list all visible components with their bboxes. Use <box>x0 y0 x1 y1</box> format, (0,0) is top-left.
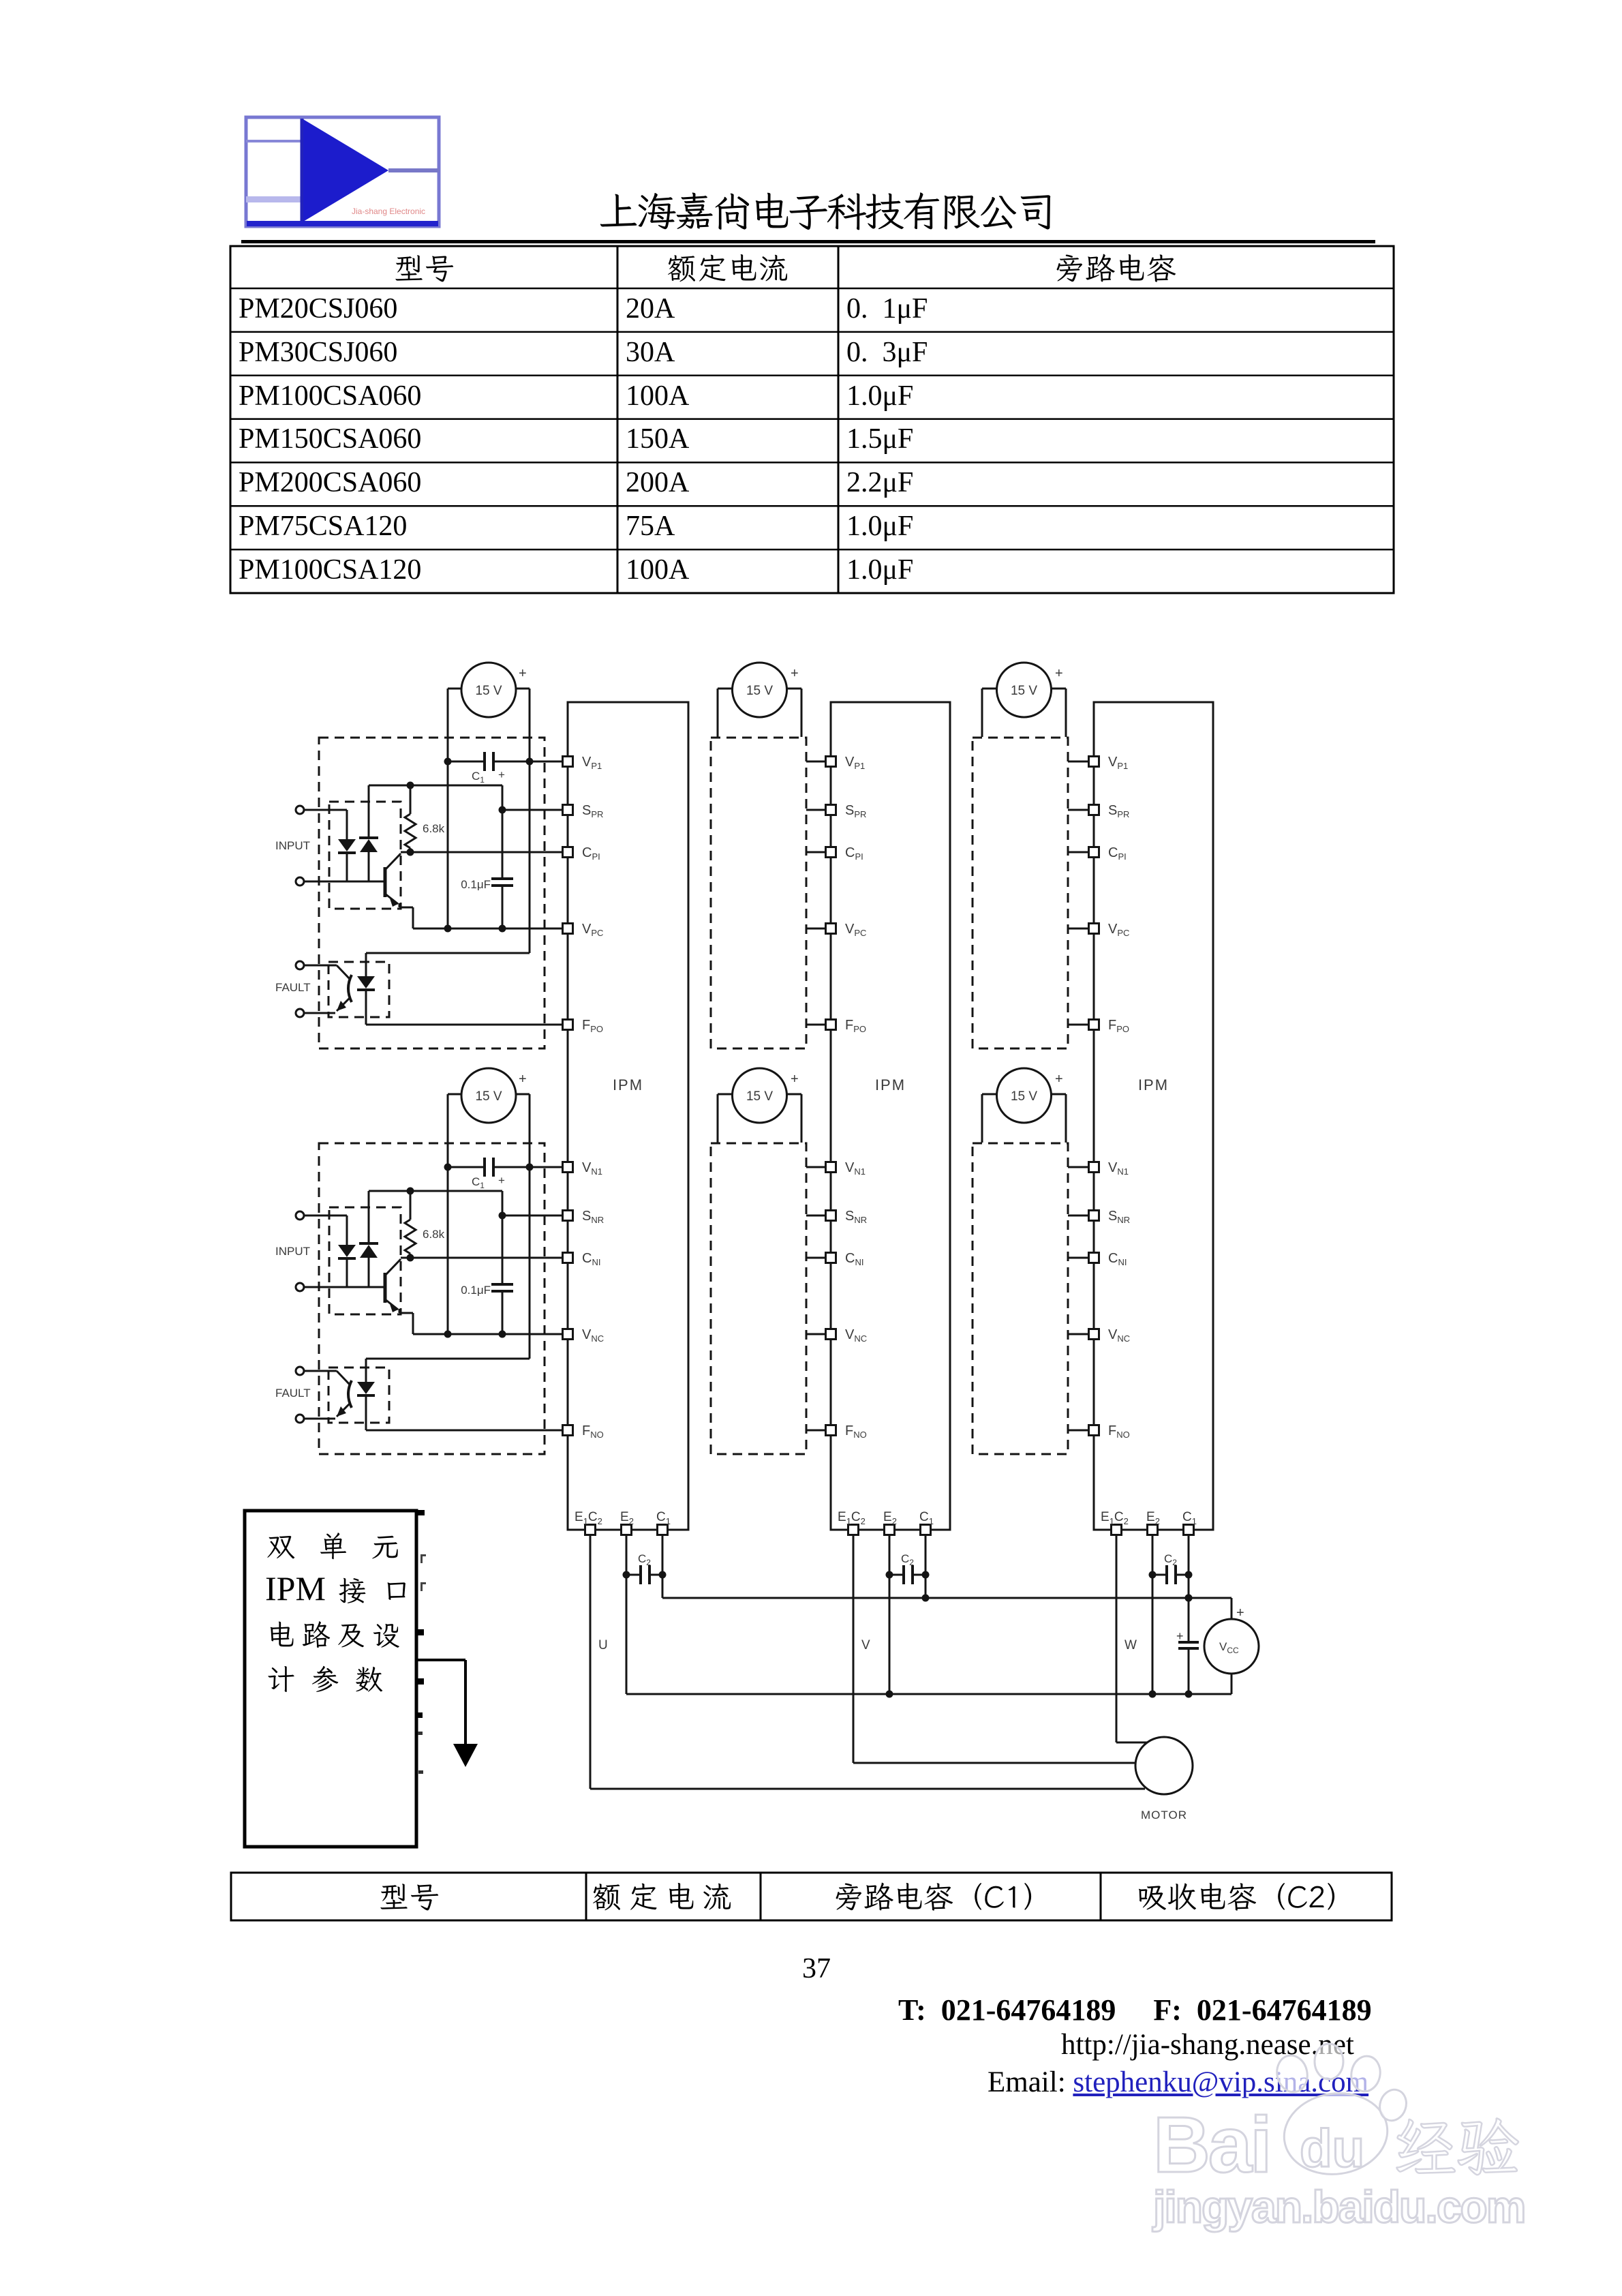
svg-text:FNO: FNO <box>845 1423 867 1440</box>
bottom table header row <box>231 1873 1392 1920</box>
wire D2 anode <box>368 1258 370 1287</box>
svg-text:U: U <box>598 1638 608 1652</box>
wire 15V right leg <box>801 1094 803 1143</box>
pin E2 of U3 <box>1146 1510 1160 1535</box>
svg-text:SNR: SNR <box>582 1209 604 1225</box>
svg-text:CNI: CNI <box>1108 1251 1127 1267</box>
svg-text:VP1: VP1 <box>845 755 865 771</box>
label 0.1uF <box>461 878 491 891</box>
svg-text:E2: E2 <box>1146 1510 1160 1526</box>
capacitor CF (bus filter) <box>1178 1595 1199 1698</box>
svg-text:VNC: VNC <box>1108 1327 1130 1344</box>
label C2 (U2) <box>901 1552 914 1567</box>
wire VP1 net <box>530 761 563 763</box>
svg-text:IPM: IPM <box>1138 1076 1169 1093</box>
label C1 <box>472 770 485 785</box>
junction resistor bottom <box>407 849 414 856</box>
svg-text:FPO: FPO <box>582 1018 603 1034</box>
plus polarity mark VCC <box>1236 1605 1244 1620</box>
svg-text:+: + <box>498 768 505 781</box>
wire D2 anode <box>368 852 370 881</box>
svg-text:VPC: VPC <box>582 922 603 938</box>
fault terminal P top <box>296 961 304 969</box>
svg-text:Jia-shang Electronic: Jia-shang Electronic <box>352 207 425 216</box>
wire 15V left leg <box>447 689 449 928</box>
pin FPO of U2 <box>826 1018 867 1034</box>
opto-coupler UP2 dashed box (fault) <box>328 962 389 1017</box>
wire input top <box>304 810 347 839</box>
pin VN1 of U1 <box>563 1160 602 1177</box>
wire emitter to VPC <box>399 903 413 928</box>
junction C1 left <box>444 1164 452 1171</box>
svg-text:CPI: CPI <box>845 845 863 862</box>
wire D2 cathode up <box>368 1191 370 1243</box>
voltage source 15V <box>733 663 787 717</box>
svg-text:VN1: VN1 <box>582 1160 602 1177</box>
capacitor C1 (N) <box>448 1158 530 1177</box>
interface dashed box (col 3) <box>973 738 1068 1048</box>
opto-coupler UN1 inner dashed box <box>329 1207 401 1314</box>
junction 0.1uF bottom <box>499 1331 506 1338</box>
wire CNI stub <box>1068 1257 1089 1259</box>
LED DN3 (fault) <box>357 1382 375 1395</box>
wire VNC stub <box>1068 1333 1089 1335</box>
svg-text:IPM: IPM <box>613 1076 643 1093</box>
LED DN1 <box>338 1245 356 1258</box>
svg-text:SNR: SNR <box>1108 1209 1130 1225</box>
svg-text:+: + <box>1055 666 1063 681</box>
pin CPI of U1 <box>563 845 600 862</box>
fault terminal N top <box>296 1367 304 1375</box>
wire C1 column U3 <box>1188 1535 1190 1598</box>
pin VN1 of U2 <box>826 1160 866 1177</box>
svg-text:SPR: SPR <box>1108 803 1129 819</box>
wire SPR net <box>502 809 563 811</box>
junction resistor bottom <box>407 1254 414 1262</box>
transistor QP1 (opto output) <box>385 854 401 907</box>
wire CPI stub <box>1068 851 1089 854</box>
svg-text:15 V: 15 V <box>475 1089 502 1104</box>
svg-text:INPUT: INPUT <box>275 839 310 852</box>
wire VPC stub <box>806 928 826 930</box>
svg-text:15 V: 15 V <box>1011 1089 1037 1104</box>
svg-text:+: + <box>519 666 527 681</box>
wire 15V loop top <box>982 1093 1066 1096</box>
pin FPO of U1 <box>563 1018 604 1034</box>
pin VNC of U3 <box>1089 1327 1131 1344</box>
opto-coupler UP1 inner dashed box <box>329 802 401 909</box>
input terminal P top <box>296 806 304 814</box>
plus polarity mark <box>1055 1072 1063 1087</box>
wire 15V left leg <box>717 1094 719 1143</box>
svg-text:VN1: VN1 <box>1108 1160 1129 1177</box>
label C2 (U3) <box>1164 1552 1177 1567</box>
svg-text:FPO: FPO <box>845 1018 866 1034</box>
wire FNO stub <box>1068 1430 1089 1432</box>
junction C1 left <box>444 758 452 766</box>
junction P bus / U3 C1 <box>1185 1595 1193 1602</box>
svg-text:+: + <box>1055 1072 1063 1087</box>
wire 15V left leg <box>981 689 983 737</box>
pin FNO of U2 <box>826 1423 867 1440</box>
wire CNI net <box>401 1257 563 1259</box>
pin FNO of U1 <box>563 1423 604 1440</box>
wire LED cathode <box>346 1258 348 1287</box>
junction N bus / U3 E2 <box>1149 1691 1157 1698</box>
svg-text:VNC: VNC <box>845 1327 867 1344</box>
label FAULT <box>275 981 311 994</box>
wire C1 column U2 <box>925 1535 927 1598</box>
pin FNO of U3 <box>1089 1423 1130 1440</box>
plus polarity mark <box>791 666 799 681</box>
wire P bus (C1 rail) <box>662 1598 1231 1619</box>
voltage source 15V <box>733 1068 787 1123</box>
wire 15V loop top <box>448 1093 530 1096</box>
wire LED cathode <box>346 853 348 881</box>
svg-text:FAULT: FAULT <box>275 981 311 994</box>
wire FNO net <box>366 1395 563 1430</box>
svg-text:FPO: FPO <box>1108 1018 1129 1034</box>
wire N bus (E2 rail) <box>626 1674 1231 1694</box>
label phase U <box>598 1638 608 1652</box>
wire node-A horizontal <box>369 1191 502 1215</box>
wire 15V left leg <box>447 1094 449 1334</box>
interface outer dashed box (N-side) <box>319 1143 545 1454</box>
pin E1C2 of U2 <box>838 1510 866 1535</box>
pin E2 of U1 <box>620 1510 634 1535</box>
label C1 plus <box>498 768 505 781</box>
label INPUT <box>275 839 310 852</box>
label 0.1uF <box>461 1284 491 1297</box>
wire 15V right leg <box>1065 1094 1067 1143</box>
plus polarity mark <box>791 1072 799 1087</box>
wire 15V+ rail to fault opto <box>366 1359 530 1382</box>
svg-text:CNI: CNI <box>845 1251 863 1267</box>
junction 0.1uF bottom <box>499 925 506 933</box>
pin CPI of U2 <box>826 845 863 862</box>
capacitor 0.1uF (P) <box>491 810 513 928</box>
pin VPC of U1 <box>563 922 604 938</box>
wire 15V right leg <box>801 689 803 737</box>
pin SNR of U1 <box>563 1209 605 1225</box>
svg-text:E1C2: E1C2 <box>838 1510 866 1526</box>
wire E2 column U3 <box>1152 1535 1154 1694</box>
junction N bus / U2 E2 <box>886 1691 893 1698</box>
wire 15V loop top <box>982 688 1066 690</box>
label 6.8k <box>423 822 445 835</box>
LED DP1 <box>338 839 356 853</box>
svg-text:FAULT: FAULT <box>275 1387 311 1400</box>
label 6.8k <box>423 1228 445 1241</box>
svg-text:C1: C1 <box>919 1510 934 1526</box>
input terminal N bottom <box>296 1283 304 1291</box>
fault terminal N bottom <box>296 1415 304 1423</box>
LED DP3 (fault) <box>357 976 375 990</box>
fault terminal P bottom <box>296 1009 304 1017</box>
svg-text:+: + <box>519 1072 527 1087</box>
diode DP2 (reverse) <box>359 838 378 852</box>
company title <box>600 192 1050 230</box>
svg-text:+: + <box>1236 1605 1244 1620</box>
voltage source VCC <box>1204 1619 1259 1674</box>
transistor QP2 (fault output) <box>304 965 352 1013</box>
svg-text:W: W <box>1124 1638 1137 1652</box>
svg-text:0.1μF: 0.1μF <box>461 1284 491 1297</box>
IPM U3 block <box>1094 702 1213 1530</box>
wire 15V loop top <box>448 688 530 690</box>
wire VN1 stub <box>806 1166 826 1168</box>
svg-text:FNO: FNO <box>582 1423 604 1440</box>
IPM U1 block <box>568 702 688 1530</box>
label C1 <box>472 1175 485 1190</box>
wire CPI stub <box>806 851 826 854</box>
pin C1 of U2 <box>919 1510 934 1535</box>
interface dashed box (col 2) <box>711 1143 806 1454</box>
wire VP1 stub <box>1068 761 1089 763</box>
svg-text:+: + <box>1176 1629 1184 1643</box>
wire 15V loop top <box>718 1093 801 1096</box>
wire phase W output <box>1116 1535 1151 1742</box>
wire CNI stub <box>806 1257 826 1259</box>
motor M1 <box>1135 1737 1193 1794</box>
svg-text:C1: C1 <box>1182 1510 1197 1526</box>
label MOTOR <box>1141 1809 1187 1822</box>
junction SPR corner <box>499 1212 506 1220</box>
svg-text:VNC: VNC <box>582 1327 604 1344</box>
wire FNO stub <box>806 1430 826 1432</box>
svg-text:E1C2: E1C2 <box>575 1510 602 1526</box>
wire 15V right leg <box>529 689 531 953</box>
svg-text:0.1μF: 0.1μF <box>461 878 491 891</box>
opto-coupler UN2 dashed box (fault) <box>328 1368 389 1423</box>
label CF plus <box>1176 1629 1184 1643</box>
wire 15V right leg <box>1065 689 1067 737</box>
svg-text:SPR: SPR <box>582 803 603 819</box>
transistor QN2 (fault output) <box>304 1371 352 1419</box>
wire VPC net <box>413 928 563 930</box>
svg-text:IPM: IPM <box>265 1569 326 1607</box>
pin VNC of U1 <box>563 1327 605 1344</box>
wire FPO stub <box>1068 1024 1089 1026</box>
pin SPR of U1 <box>563 803 604 819</box>
wire 15V left leg <box>717 689 719 737</box>
svg-text:15 V: 15 V <box>746 1089 773 1104</box>
interface dashed box (col 3) <box>973 1143 1068 1454</box>
pin VNC of U2 <box>826 1327 868 1344</box>
pin C1 of U3 <box>1182 1510 1197 1535</box>
svg-text:FNO: FNO <box>1108 1423 1130 1440</box>
plus polarity mark <box>519 666 527 681</box>
plus polarity mark <box>1055 666 1063 681</box>
wire SNR stub <box>1068 1215 1089 1217</box>
wire VN1 net <box>530 1166 563 1168</box>
wire VNC net <box>413 1333 563 1335</box>
resistor RP1 6.8k <box>405 785 416 852</box>
voltage source 15V <box>997 1068 1052 1123</box>
pin VP1 of U3 <box>1089 755 1129 771</box>
svg-text:MOTOR: MOTOR <box>1141 1809 1187 1822</box>
junction resistor top <box>407 782 414 789</box>
pin VPC of U3 <box>1089 922 1130 938</box>
svg-text:SPR: SPR <box>845 803 866 819</box>
wire input bottom <box>304 1286 385 1288</box>
pin VP1 of U1 <box>563 755 602 771</box>
note box: dual-unit IPM interface circuit and design parameters <box>245 1511 416 1847</box>
input terminal N top <box>296 1211 304 1220</box>
svg-text:INPUT: INPUT <box>275 1245 310 1258</box>
wire D2 cathode up <box>368 785 370 838</box>
junction 15V- on VPC <box>444 1331 452 1338</box>
svg-text:C2: C2 <box>638 1552 651 1567</box>
wire SPR stub <box>1068 809 1089 811</box>
pin E1C2 of U3 <box>1101 1510 1129 1535</box>
pin VN1 of U3 <box>1089 1160 1129 1177</box>
wire CPI net <box>401 851 563 854</box>
svg-text:6.8k: 6.8k <box>423 1228 445 1241</box>
label INPUT <box>275 1245 310 1258</box>
junction SPR corner <box>499 806 506 814</box>
voltage source 15V <box>461 663 516 717</box>
wire phase V output <box>853 1535 1135 1763</box>
label C1 plus <box>498 1174 505 1187</box>
pin E1C2 of U1 <box>575 1510 602 1535</box>
wire input top <box>304 1215 347 1245</box>
input terminal P bottom <box>296 877 304 886</box>
junction C1 right <box>526 1164 534 1171</box>
transistor QN1 (opto output) <box>385 1259 401 1312</box>
svg-text:V: V <box>861 1638 870 1652</box>
svg-text:E2: E2 <box>883 1510 897 1526</box>
pin VPC of U2 <box>826 922 867 938</box>
capacitor C2 (U2 snubber) <box>886 1565 930 1584</box>
pin CPI of U3 <box>1089 845 1127 862</box>
pin SNR of U3 <box>1089 1209 1131 1225</box>
svg-text:CPI: CPI <box>1108 845 1127 862</box>
svg-text:IPM: IPM <box>875 1076 906 1093</box>
wire 15V+ rail to fault opto <box>366 953 530 976</box>
svg-text:VP1: VP1 <box>582 755 602 771</box>
wire 15V loop top <box>718 688 801 690</box>
svg-text:VN1: VN1 <box>845 1160 866 1177</box>
label FAULT <box>275 1387 311 1400</box>
wire input bottom <box>304 881 385 883</box>
plus polarity mark <box>519 1072 527 1087</box>
capacitor 0.1uF (N) <box>491 1215 513 1334</box>
wire SNR stub <box>806 1215 826 1217</box>
label phase W <box>1124 1638 1137 1652</box>
label phase V <box>861 1638 870 1652</box>
pin CNI of U1 <box>563 1251 601 1267</box>
wire emitter to VNC <box>399 1309 413 1334</box>
wire phase U output <box>590 1535 1145 1789</box>
svg-text:SNR: SNR <box>845 1209 867 1225</box>
svg-text:C1: C1 <box>472 1175 485 1190</box>
svg-text:C2: C2 <box>901 1552 914 1567</box>
wire SNR net <box>502 1215 563 1217</box>
svg-text:15 V: 15 V <box>475 684 502 698</box>
arrow (output marker) <box>416 1660 478 1767</box>
pin SPR of U2 <box>826 803 867 819</box>
wire 15V right leg <box>529 1094 531 1359</box>
voltage source 15V <box>461 1068 516 1123</box>
pin CNI of U3 <box>1089 1251 1127 1267</box>
interface outer dashed box (P-side) <box>319 738 545 1048</box>
svg-text:C2: C2 <box>1164 1552 1177 1567</box>
wire 15V left leg <box>981 1094 983 1143</box>
wire SPR stub <box>806 809 826 811</box>
capacitor C2 (U1 snubber) <box>623 1565 667 1584</box>
svg-text:CNI: CNI <box>582 1251 600 1267</box>
pin E2 of U2 <box>883 1510 897 1535</box>
pin C1 of U1 <box>656 1510 671 1535</box>
wire VN1 stub <box>1068 1166 1089 1168</box>
svg-text:VPC: VPC <box>1108 922 1129 938</box>
diode DN2 (reverse) <box>359 1243 378 1258</box>
capacitor C2 (U3 snubber) <box>1149 1565 1193 1584</box>
svg-text:VP1: VP1 <box>1108 755 1128 771</box>
junction 15V- on VPC <box>444 925 452 933</box>
capacitor C1 (P) <box>448 752 530 771</box>
wire FPO net <box>366 990 563 1025</box>
svg-text:CPI: CPI <box>582 845 600 862</box>
svg-text:VPC: VPC <box>845 922 866 938</box>
svg-text:+: + <box>498 1174 505 1187</box>
wire E2 column U2 <box>889 1535 891 1694</box>
svg-text:C1: C1 <box>656 1510 671 1526</box>
wire VNC stub <box>806 1333 826 1335</box>
pin FPO of U3 <box>1089 1018 1130 1034</box>
pin CNI of U2 <box>826 1251 864 1267</box>
wire C1 column U1 <box>662 1535 664 1598</box>
svg-text:15 V: 15 V <box>746 684 773 698</box>
resistor RN1 6.8k <box>405 1191 416 1258</box>
junction C1 right <box>526 758 534 766</box>
pin SNR of U2 <box>826 1209 868 1225</box>
wire E2 column U1 <box>626 1535 628 1694</box>
wire FPO stub <box>806 1024 826 1026</box>
IPM U2 block <box>831 702 950 1530</box>
junction P bus / U2 C1 <box>922 1595 930 1602</box>
label C2 (U1) <box>638 1552 651 1567</box>
svg-text:6.8k: 6.8k <box>423 822 445 835</box>
wire VP1 stub <box>806 761 826 763</box>
junction resistor top <box>407 1188 414 1195</box>
svg-text:+: + <box>791 666 799 681</box>
pin SPR of U3 <box>1089 803 1130 819</box>
svg-text:C1: C1 <box>472 770 485 785</box>
company logo <box>246 117 439 226</box>
svg-text:E2: E2 <box>620 1510 634 1526</box>
svg-text:+: + <box>791 1072 799 1087</box>
svg-text:E1C2: E1C2 <box>1101 1510 1129 1526</box>
voltage source 15V <box>997 663 1052 717</box>
wire VPC stub <box>1068 928 1089 930</box>
pin VP1 of U2 <box>826 755 866 771</box>
svg-text:15 V: 15 V <box>1011 684 1037 698</box>
wire node-A horizontal <box>369 785 502 810</box>
interface dashed box (col 2) <box>711 738 806 1048</box>
